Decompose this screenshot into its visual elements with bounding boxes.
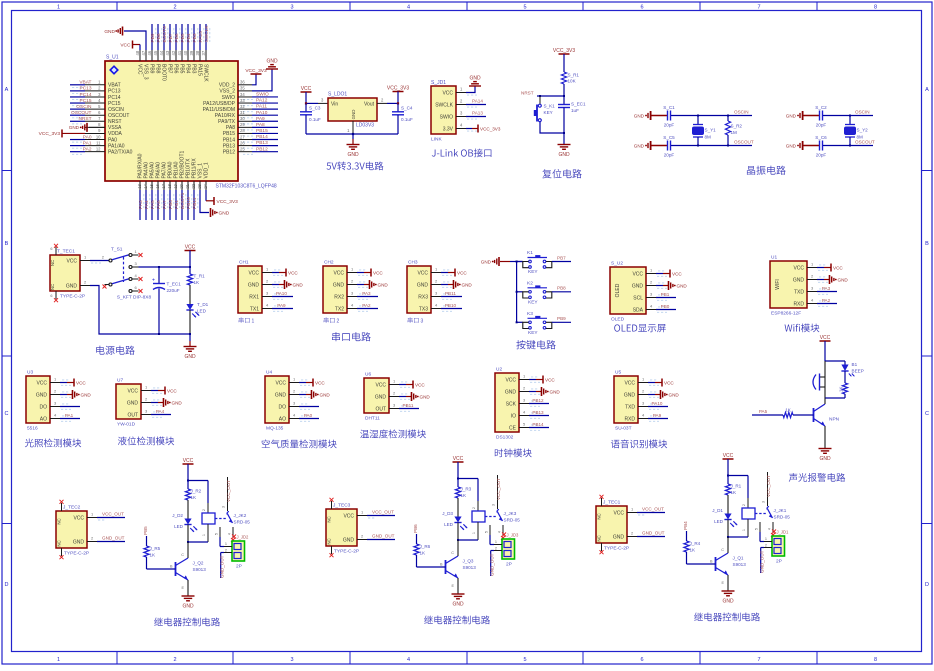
wire net PA11 from U1 pin 32 — [252, 108, 278, 110]
svg-text:220uF: 220uF — [167, 288, 180, 293]
svg-text:J_Q3: J_Q3 — [463, 559, 474, 564]
wire net BOOT0 at U1 top pin 44 — [163, 24, 165, 50]
svg-text:1K: 1K — [731, 490, 738, 495]
svg-text:21: 21 — [185, 183, 190, 188]
svg-text:LD03V3: LD03V3 — [356, 123, 374, 129]
ground at U1 VSSA pin 8 — [89, 126, 105, 128]
svg-text:3: 3 — [290, 4, 293, 10]
wire button to ground rail — [540, 122, 564, 133]
ground (reset circuit) — [563, 132, 565, 134]
svg-text:1uF: 1uF — [571, 108, 579, 113]
wire net PA0 from U4 pin 4 — [299, 418, 319, 420]
svg-text:BOOT0: BOOT0 — [160, 64, 166, 81]
svg-text:PA3: PA3 — [138, 200, 144, 209]
svg-text:14: 14 — [143, 183, 148, 188]
svg-text:NC: NC — [57, 540, 62, 546]
ground at U1 VSS_3 pin 47 — [124, 31, 146, 50]
svg-text:PB6: PB6 — [174, 33, 180, 42]
svg-text:PC14: PC14 — [80, 92, 92, 98]
svg-text:17: 17 — [161, 183, 166, 188]
svg-text:S_K1: S_K1 — [544, 104, 556, 109]
wire net PB5 at U1 top pin 41 — [181, 24, 183, 50]
svg-text:PB0: PB0 — [168, 200, 174, 209]
svg-text:32: 32 — [240, 104, 245, 109]
svg-text:CE: CE — [509, 425, 517, 431]
wire VCC to relay coil — [188, 480, 208, 482]
svg-text:GND: GND — [73, 539, 85, 545]
label air quality detection module — [262, 439, 337, 448]
svg-text:GND: GND — [505, 389, 517, 395]
svg-text:J_Q2: J_Q2 — [193, 561, 204, 566]
svg-text:PA11: PA11 — [256, 104, 267, 110]
svg-text:OSCIN: OSCIN — [76, 104, 92, 110]
svg-text:J_R6: J_R6 — [420, 544, 431, 549]
ground at S_JD1 pin 1 — [466, 86, 475, 93]
wire net PB15 from U1 pin 28 — [252, 132, 278, 134]
svg-text:20pF: 20pF — [664, 123, 675, 128]
svg-text:GND: GND — [320, 393, 331, 398]
svg-text:U7: U7 — [117, 378, 123, 384]
power VCC at CH2 pin 1 — [357, 272, 364, 274]
svg-text:PA6: PA6 — [156, 200, 162, 209]
pin 1 VCC of J_TEC3 — [357, 515, 367, 517]
wire NRST node — [537, 95, 564, 97]
ground (supply circuit) — [189, 334, 191, 341]
svg-text:3: 3 — [762, 501, 766, 503]
svg-text:GND: GND — [343, 537, 355, 543]
svg-text:VCC: VCC — [505, 377, 516, 383]
capacitor S_C2 20pF — [803, 115, 820, 117]
svg-text:1K: 1K — [194, 280, 201, 285]
svg-text:25: 25 — [240, 146, 245, 151]
wire net PB9 at U1 top pin 46 — [151, 24, 153, 50]
svg-text:VCC: VCC — [343, 513, 354, 519]
svg-text:AO: AO — [40, 416, 47, 422]
svg-text:PB9: PB9 — [148, 64, 154, 74]
svg-text:VCC: VCC — [632, 271, 643, 277]
svg-text:PB4: PB4 — [184, 64, 190, 74]
svg-text:GND: GND — [184, 354, 196, 360]
svg-text:PA4: PA4 — [144, 200, 150, 209]
svg-text:S_C6: S_C6 — [815, 135, 827, 140]
svg-text:OSCOUT: OSCOUT — [71, 110, 92, 116]
svg-text:20pF: 20pF — [816, 123, 827, 128]
svg-text:OLED: OLED — [615, 283, 621, 297]
capacitor S_C6 20pF — [803, 145, 820, 147]
svg-text:1: 1 — [742, 529, 746, 531]
svg-text:VCC: VCC — [723, 453, 734, 459]
wire net PA10 from U1 pin 31 — [252, 114, 278, 116]
svg-text:2P: 2P — [236, 564, 242, 570]
svg-text:GND: GND — [786, 144, 797, 149]
svg-text:VCC: VCC — [315, 380, 325, 385]
svg-text:1K: 1K — [191, 495, 198, 500]
led J_D1 — [727, 495, 729, 514]
svg-text:4: 4 — [228, 533, 232, 535]
svg-text:DO: DO — [279, 404, 287, 410]
svg-text:VSS_3: VSS_3 — [142, 64, 148, 80]
svg-text:PA3: PA3 — [822, 286, 831, 291]
svg-text:VCC: VCC — [76, 380, 86, 385]
label temperature-humidity detection module — [360, 429, 426, 438]
svg-text:DO: DO — [40, 404, 48, 410]
wire bus to key K3 — [517, 321, 523, 323]
svg-text:VCC_OUT: VCC_OUT — [766, 475, 771, 497]
diode B1 BEEP (LED) — [844, 361, 846, 365]
svg-text:GND: GND — [275, 392, 287, 398]
wire led to coil bottom and transistor — [458, 539, 478, 541]
wire base resistor to J_Q1 base — [686, 552, 688, 564]
label liquid level detection module — [118, 436, 174, 445]
svg-text:47: 47 — [141, 50, 146, 55]
wire net GND_OUT from J_TEC2 — [97, 541, 125, 543]
ground at U3 pin 2 — [60, 394, 67, 396]
svg-text:T_EC1: T_EC1 — [167, 282, 182, 287]
svg-text:3.3V: 3.3V — [443, 126, 454, 132]
svg-text:PA10: PA10 — [276, 291, 287, 296]
svg-text:DS1302: DS1302 — [496, 435, 514, 441]
svg-text:PB11: PB11 — [192, 197, 198, 209]
svg-text:34: 34 — [240, 92, 245, 97]
svg-text:PA4: PA4 — [156, 409, 165, 414]
no-connect stubs of J_TEC1 — [601, 498, 603, 506]
wire net GND_OUT from J_TEC3 — [367, 539, 395, 541]
svg-text:8: 8 — [874, 4, 877, 10]
ground at CH2 pin 2 — [357, 284, 364, 286]
wire net PA6 at U1 bottom pin 16 — [157, 190, 159, 220]
wire net PB14 from U1 pin 27 — [252, 139, 278, 141]
svg-text:VCC: VCC — [545, 377, 555, 382]
led J_D2 — [187, 500, 189, 519]
svg-text:GND_OUT: GND_OUT — [372, 534, 395, 539]
svg-text:IO: IO — [511, 413, 516, 419]
svg-text:GND: GND — [634, 114, 645, 119]
wire net PA9 from U5 pin 4 — [648, 418, 668, 420]
wire led to coil bottom and transistor — [728, 536, 748, 538]
wire net PB14 from U2 pin 5 — [529, 427, 549, 429]
svg-text:VCC: VCC — [167, 388, 177, 393]
wire T_TEC1 GND to ground rail — [90, 286, 190, 335]
wire net PA4 at U1 bottom pin 14 — [145, 190, 147, 220]
crystal S_Y1 8M — [697, 116, 699, 125]
ground at U1 VSS_1 pin 23 — [200, 190, 209, 213]
power VCC_3V3 at S_JD1 pin 4 — [466, 128, 472, 130]
svg-text:VCC: VCC — [333, 270, 344, 276]
svg-text:VCC: VCC — [301, 86, 312, 92]
svg-text:SWCLK: SWCLK — [204, 25, 210, 43]
svg-text:S9013: S9013 — [733, 562, 747, 567]
svg-text:PB5: PB5 — [143, 526, 148, 535]
wire net SWIO from U1 pin 34 — [252, 96, 278, 98]
resistor S_R1 10K — [561, 72, 566, 84]
svg-text:GND: GND — [36, 392, 48, 398]
wire net VBAT to U1 pin 1 — [70, 84, 85, 86]
svg-text:SCL: SCL — [633, 295, 643, 301]
svg-text:C: C — [451, 551, 454, 555]
svg-text:39: 39 — [189, 50, 194, 55]
resistor J_R5 1K (base) — [144, 546, 149, 557]
wire net PB11 from CH3 pin 3 — [441, 296, 462, 298]
wire OSCOUT rail — [823, 145, 873, 147]
svg-text:VCC: VCC — [457, 270, 467, 275]
svg-text:GND: GND — [104, 29, 115, 35]
svg-text:GND: GND — [375, 394, 387, 400]
svg-text:RX3: RX3 — [418, 294, 428, 300]
wire net PA9 from U1 pin 30 — [252, 120, 278, 122]
svg-text:GND: GND — [420, 395, 431, 400]
svg-text:1: 1 — [765, 537, 767, 541]
svg-text:NC: NC — [50, 260, 55, 266]
svg-text:20pF: 20pF — [664, 153, 675, 158]
svg-text:S9013: S9013 — [463, 565, 477, 570]
svg-text:SWCLK: SWCLK — [202, 64, 208, 82]
svg-text:19: 19 — [173, 183, 178, 188]
wire S_R1 to NRST node — [563, 84, 565, 96]
svg-text:KEY: KEY — [544, 110, 553, 115]
wire net PB1 at U1 bottom pin 19 — [175, 190, 177, 220]
wire net PA0 to U1 pin 10 — [70, 139, 85, 141]
wire bus to key K1 — [517, 261, 523, 263]
svg-text:PB10: PB10 — [445, 303, 457, 308]
power VCC at U3 pin 1 — [60, 382, 67, 384]
connector J_JD3 2P — [502, 533, 506, 537]
svg-text:28: 28 — [240, 128, 245, 133]
svg-text:8M: 8M — [705, 135, 712, 140]
wire net PB11 from U6 pin 3 — [399, 408, 419, 410]
label relay control circuit — [154, 618, 220, 627]
svg-text:U4: U4 — [266, 370, 272, 376]
svg-text:7: 7 — [757, 657, 760, 663]
svg-text:S_JD1: S_JD1 — [431, 80, 446, 86]
svg-text:0.1uF: 0.1uF — [401, 117, 413, 122]
wire from U4 pin 3 — [299, 406, 319, 408]
wire net PB11 at U1 bottom pin 22 — [193, 190, 195, 220]
svg-text:GND: GND — [469, 76, 481, 82]
svg-text:U3: U3 — [27, 370, 33, 376]
svg-text:RX1: RX1 — [249, 294, 259, 300]
svg-text:PB9: PB9 — [150, 33, 156, 42]
svg-text:5: 5 — [215, 533, 219, 535]
wire net GND_OUT from J_TEC1 — [637, 536, 665, 538]
power VCC at S_U2 pin 1 — [656, 273, 663, 275]
wire PB4 to base resistor — [686, 531, 688, 541]
relay contact common (VCC_OUT) — [497, 475, 499, 509]
svg-text:NPN: NPN — [829, 417, 840, 423]
resistor J_R1 1K — [727, 476, 729, 485]
svg-text:PB6: PB6 — [172, 64, 178, 74]
ground at U2 pin 2 — [529, 391, 536, 393]
svg-text:KEY: KEY — [528, 330, 538, 336]
resistor T_R1 1K — [189, 267, 191, 274]
relay contact 4 stub (no connect) — [502, 525, 504, 536]
ground (relay J_Q3) — [457, 578, 459, 594]
power VCC at U1 pin 48 — [133, 44, 141, 46]
svg-text:10: 10 — [96, 134, 101, 139]
svg-text:PC15: PC15 — [80, 98, 92, 104]
svg-text:YW-01D: YW-01D — [117, 422, 136, 428]
svg-text:U5: U5 — [615, 370, 621, 376]
svg-text:OUT: OUT — [127, 412, 138, 418]
svg-text:S_C5: S_C5 — [663, 135, 675, 140]
svg-text:RXD: RXD — [793, 301, 804, 307]
wire PB6 to base resistor — [416, 534, 418, 544]
svg-text:GND: GND — [786, 114, 797, 119]
svg-text:3: 3 — [492, 504, 496, 506]
push button S_K1 KEY — [539, 96, 541, 104]
power VCC_3V3 at U1 VDDA pin 9 — [62, 132, 85, 134]
ground at CH3 pin 2 — [441, 284, 448, 286]
svg-text:J_JD2: J_JD2 — [237, 535, 250, 540]
svg-text:PB5: PB5 — [178, 64, 184, 74]
svg-text:5: 5 — [523, 657, 526, 663]
svg-text:GND: GND — [293, 283, 304, 288]
transistor J_Q2 S9013 — [175, 562, 177, 576]
svg-text:10K: 10K — [568, 79, 577, 84]
svg-text:1K: 1K — [690, 548, 697, 553]
svg-text:S9013: S9013 — [193, 567, 207, 572]
svg-text:S_U1: S_U1 — [106, 55, 119, 61]
wire from U3 pin 3 — [60, 406, 80, 408]
wire net PB1 from S_U2 pin 3 — [656, 297, 676, 299]
pin 1 VCC of J_TEC1 — [627, 512, 637, 514]
svg-text:PB10: PB10 — [186, 197, 192, 209]
svg-text:D: D — [5, 582, 9, 588]
label voice recognition module — [611, 439, 667, 448]
relay contact 5 stub — [489, 525, 491, 535]
svg-text:3: 3 — [290, 657, 293, 663]
svg-text:GND: GND — [819, 456, 831, 462]
ground (crystal S_Y2 bottom) — [797, 145, 799, 147]
power VCC at U4 pin 1 — [299, 382, 306, 384]
wire LDO Vout to VCC_3V3 — [377, 102, 387, 104]
wire net PA8 from U1 pin 29 — [252, 126, 278, 128]
svg-text:42: 42 — [171, 50, 176, 55]
wire net PC14 to U1 pin 3 — [70, 96, 85, 98]
wire net VCC_OUT from J_TEC1 — [637, 512, 665, 514]
wire VCC to relay coil — [458, 478, 478, 480]
svg-text:LED: LED — [174, 524, 184, 529]
wire contact 5 to J_JD2 pin 1 — [219, 537, 221, 547]
label WIFI module — [785, 324, 820, 333]
ground (relay J_Q1) — [727, 575, 729, 591]
svg-text:S_R1: S_R1 — [568, 73, 580, 78]
svg-text:PA3: PA3 — [362, 291, 371, 296]
wire net PB4 at U1 top pin 40 — [187, 24, 189, 50]
label J-Link OB interface — [432, 149, 492, 158]
label sound-light alarm circuit — [789, 473, 845, 482]
ground at S_U2 pin 2 — [656, 285, 663, 287]
svg-text:AO: AO — [279, 416, 286, 422]
svg-text:VCC: VCC — [442, 90, 453, 96]
svg-text:VCC: VCC — [664, 380, 674, 385]
svg-text:TX3: TX3 — [419, 306, 428, 312]
wire key K2 to net PB8 — [552, 291, 571, 293]
label 5V to 3.3V circuit — [327, 162, 384, 171]
relay contact 4 stub (no connect) — [772, 522, 774, 533]
svg-text:GND: GND — [722, 599, 734, 605]
svg-text:44: 44 — [159, 50, 164, 55]
svg-text:VCC: VCC — [820, 335, 831, 341]
svg-text:2: 2 — [765, 544, 767, 548]
wire contact 5 to J_JD1 pin 1 — [759, 532, 761, 542]
svg-text:23: 23 — [197, 183, 202, 188]
ground (crystal S_Y2 top) — [797, 115, 799, 117]
transistor J_Q3 S9013 — [445, 560, 447, 574]
wire contact 5 to J_JD3 pin 1 — [489, 535, 491, 545]
svg-text:C: C — [925, 411, 929, 417]
wire net PC15 to U1 pin 4 — [70, 102, 85, 104]
svg-text:C: C — [721, 548, 724, 552]
wire net PA3 at U1 bottom pin 13 — [139, 190, 141, 220]
svg-text:VCC: VCC — [624, 380, 635, 386]
wire net VCC_OUT from J_TEC3 — [367, 515, 395, 517]
wire OSCOUT rail — [671, 145, 752, 147]
svg-text:TYPE-C-2P: TYPE-C-2P — [64, 551, 89, 557]
relay J_JK2 switch arm — [215, 518, 226, 520]
svg-text:T_D1: T_D1 — [197, 302, 209, 307]
svg-text:VDD_1: VDD_1 — [204, 162, 210, 178]
svg-text:SRD-05: SRD-05 — [504, 518, 521, 523]
svg-text:U2: U2 — [496, 367, 502, 373]
svg-text:OLED: OLED — [611, 317, 625, 323]
wire LDO ground rail — [306, 133, 398, 135]
led J_D3 — [457, 498, 459, 517]
svg-text:GND_OUT: GND_OUT — [102, 536, 125, 541]
svg-text:1K: 1K — [420, 551, 427, 556]
svg-text:GND: GND — [347, 152, 359, 158]
ground at U1 pin 2 — [817, 279, 824, 281]
pin 1 VCC of T_TEC1 — [80, 260, 90, 262]
svg-text:NC: NC — [327, 516, 332, 522]
svg-text:PB1: PB1 — [661, 292, 670, 297]
svg-text:VCC: VCC — [672, 271, 682, 276]
ground (crystal S_Y1 bottom) — [645, 145, 647, 147]
mcu U1 STM32F103C8T6 body — [105, 61, 238, 181]
relay coil J_JK1 — [747, 498, 749, 508]
svg-text:J_JD1: J_JD1 — [777, 530, 790, 535]
svg-text:15: 15 — [149, 183, 154, 188]
svg-text:GND: GND — [669, 393, 680, 398]
svg-text:OSCIN: OSCIN — [734, 110, 749, 115]
pin 2 GND of T_TEC1 — [80, 285, 90, 287]
svg-text:LED: LED — [197, 309, 207, 314]
svg-text:PB9: PB9 — [557, 316, 566, 321]
no-connect stubs of J_TEC2 — [61, 503, 63, 511]
svg-text:1K: 1K — [150, 553, 157, 558]
svg-text:GND: GND — [677, 284, 688, 289]
svg-text:PB8: PB8 — [154, 64, 160, 74]
wire net PA7 at U1 bottom pin 17 — [163, 190, 165, 220]
label reset circuit — [542, 169, 581, 178]
svg-text:VBAT: VBAT — [79, 80, 91, 86]
relay contact 5 stub — [759, 522, 761, 532]
svg-text:3: 3 — [222, 506, 226, 508]
svg-text:PA1: PA1 — [65, 413, 74, 418]
svg-text:VCC: VCC — [73, 515, 84, 521]
svg-text:J_TEC2: J_TEC2 — [63, 505, 81, 511]
ground at U7 pin 2 — [151, 402, 158, 404]
svg-text:VCC: VCC — [613, 510, 624, 516]
wire VCC_3V3 to S_R1 — [563, 54, 565, 72]
svg-text:5: 5 — [755, 528, 759, 530]
svg-text:GND_OUT: GND_OUT — [490, 553, 495, 576]
svg-text:VCC: VCC — [127, 388, 138, 394]
svg-text:PB4: PB4 — [683, 521, 688, 530]
relay coil J_JK2 — [207, 503, 209, 513]
svg-text:J_TEC1: J_TEC1 — [603, 500, 621, 506]
svg-text:J_R5: J_R5 — [150, 546, 161, 551]
svg-text:7: 7 — [757, 4, 760, 10]
